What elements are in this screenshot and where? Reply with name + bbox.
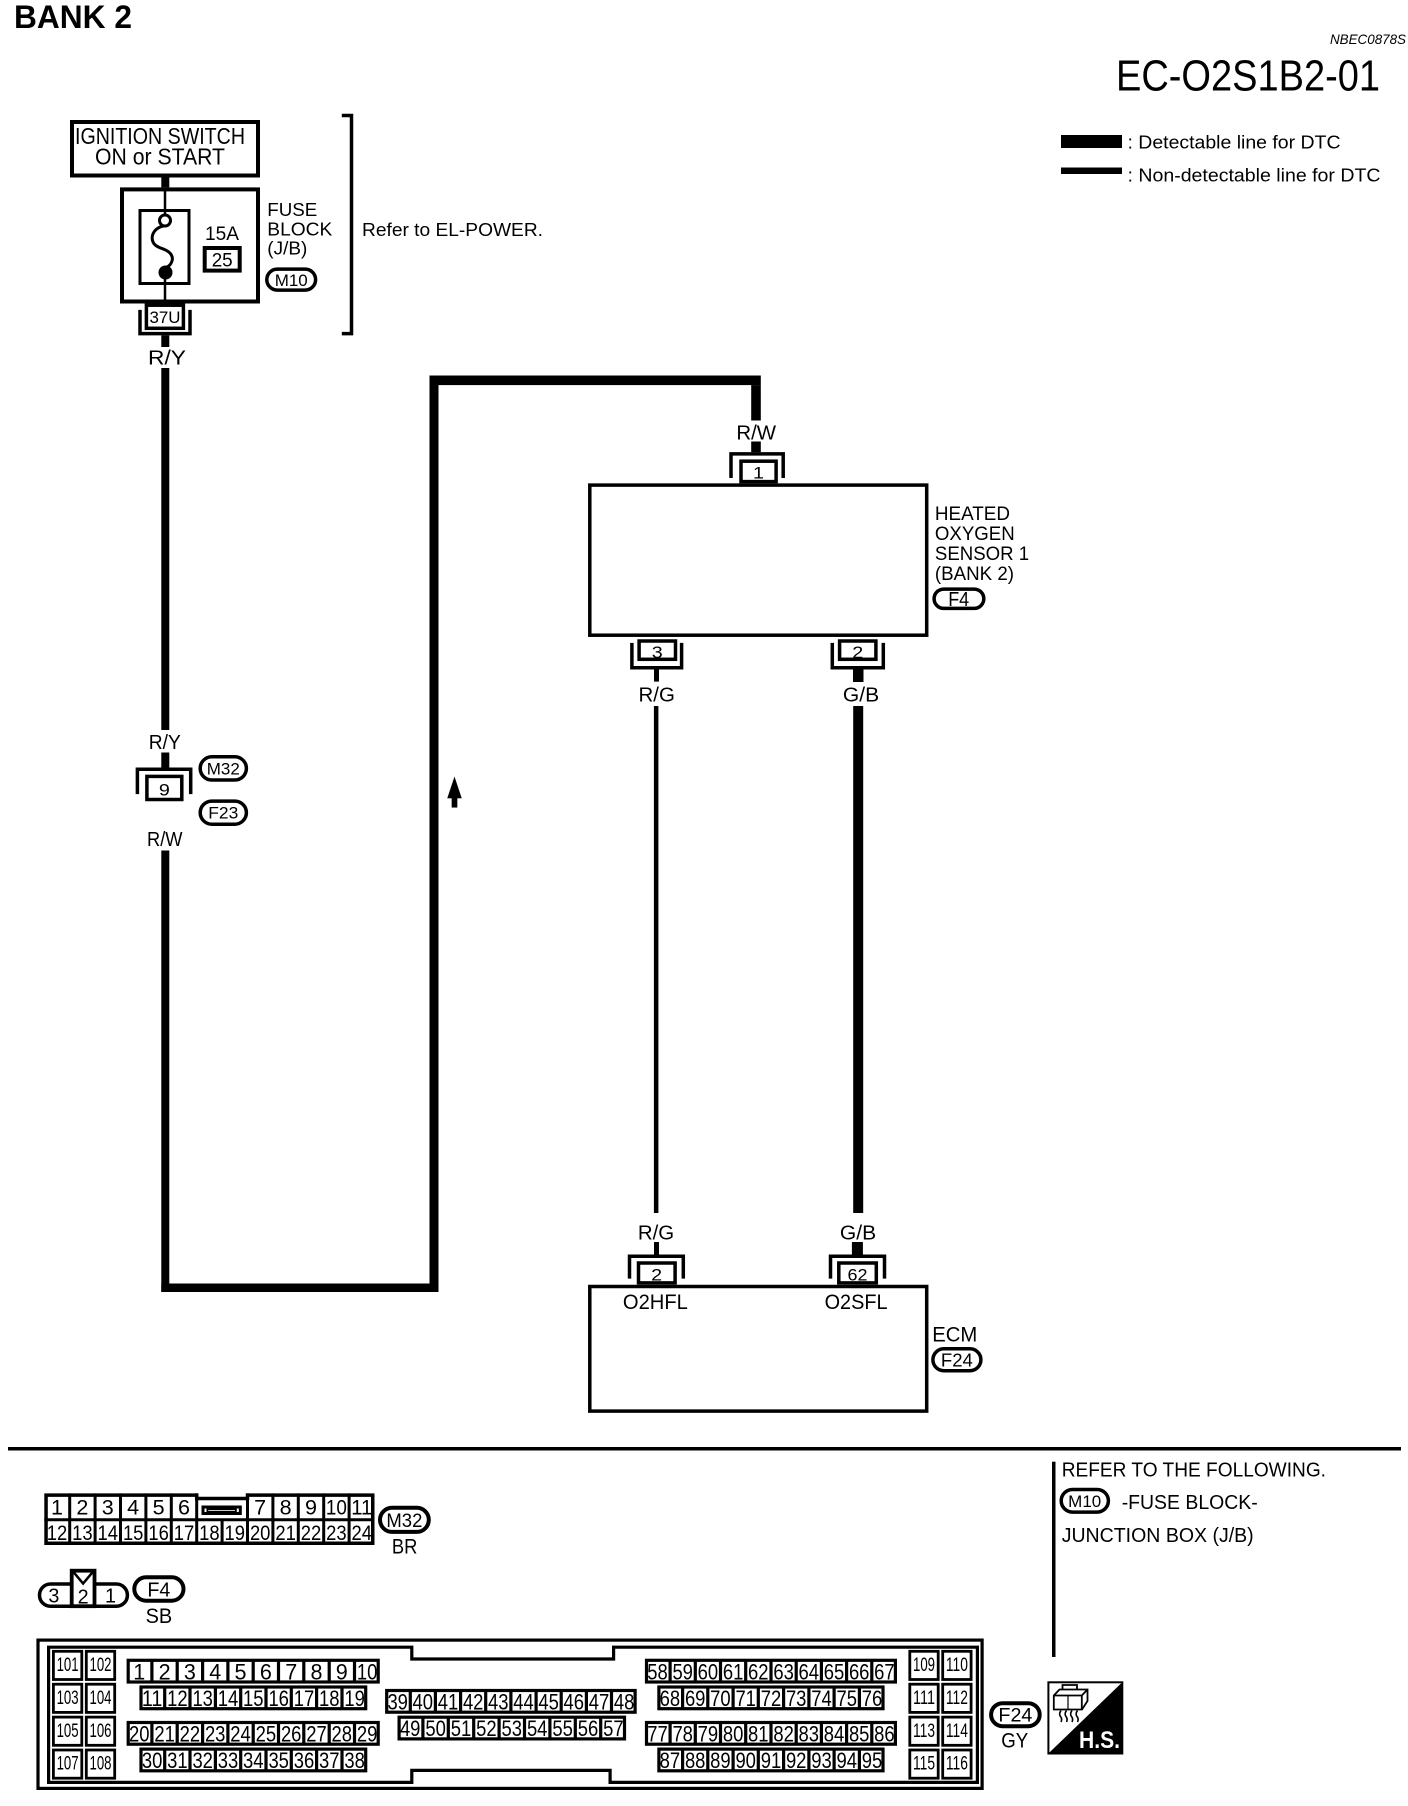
svg-text:F24: F24: [941, 1351, 973, 1371]
svg-text:28: 28: [332, 1722, 353, 1747]
svg-text:40: 40: [413, 1690, 434, 1715]
footer vertical rule: [1052, 1462, 1056, 1657]
svg-text:8: 8: [311, 1659, 323, 1684]
svg-text:16: 16: [148, 1521, 169, 1545]
svg-text:93: 93: [811, 1748, 832, 1773]
connector F24 face inner outline with notches: [49, 1647, 978, 1782]
wire stub above pin 1: [751, 442, 761, 453]
svg-text:64: 64: [799, 1659, 820, 1684]
svg-text:34: 34: [243, 1748, 264, 1773]
svg-text:88: 88: [685, 1748, 706, 1773]
svg-text:92: 92: [786, 1748, 807, 1773]
connector oval M32 footer: [380, 1508, 429, 1532]
svg-text:3: 3: [652, 643, 663, 662]
svg-text:37U: 37U: [150, 309, 181, 327]
svg-text:103: 103: [57, 1688, 79, 1709]
connector M32 row divider: [44, 1518, 374, 1521]
wire R/W bottom horizontal: [161, 1284, 438, 1293]
svg-text:77: 77: [647, 1722, 668, 1747]
svg-text:M32: M32: [386, 1511, 422, 1532]
svg-text:3: 3: [48, 1586, 59, 1608]
connector F24 terminals 20-29: [128, 1722, 378, 1747]
HO2S pin 1 box: [741, 461, 776, 481]
svg-text:8: 8: [280, 1496, 292, 1520]
svg-text:REFER TO THE FOLLOWING.: REFER TO THE FOLLOWING.: [1062, 1460, 1326, 1482]
svg-text:17: 17: [294, 1686, 315, 1711]
svg-text:73: 73: [786, 1686, 807, 1711]
svg-text:4: 4: [127, 1496, 139, 1520]
connector oval F23: [200, 801, 246, 824]
svg-text:R/Y: R/Y: [148, 347, 186, 370]
connector oval F24 footer: [991, 1703, 1040, 1726]
svg-text:F24: F24: [998, 1706, 1032, 1727]
svg-text:25: 25: [212, 251, 233, 272]
svg-text:F4: F4: [948, 589, 969, 611]
ECM pin 2 bracket: [630, 1256, 684, 1278]
ECM pin 2 box: [639, 1263, 676, 1283]
svg-text:-FUSE BLOCK-: -FUSE BLOCK-: [1122, 1492, 1258, 1514]
svg-text:49: 49: [400, 1716, 421, 1741]
svg-text:1: 1: [105, 1586, 116, 1608]
svg-text:90: 90: [735, 1748, 756, 1773]
svg-text:39: 39: [387, 1690, 408, 1715]
connector oval M10 footer: [1061, 1490, 1108, 1513]
connector F24 face outer outline: [38, 1640, 982, 1788]
svg-text:BLOCK: BLOCK: [267, 219, 333, 240]
svg-text:2: 2: [76, 1496, 88, 1520]
separator line: [8, 1447, 1401, 1451]
connector F24 terminals 39-48: [387, 1690, 635, 1715]
svg-text:(BANK 2): (BANK 2): [935, 564, 1014, 585]
connector M32 latch step: [197, 1493, 248, 1498]
svg-text:76: 76: [862, 1686, 883, 1711]
svg-text:70: 70: [710, 1686, 731, 1711]
svg-text:14: 14: [218, 1686, 239, 1711]
wire into fuse: [164, 188, 167, 216]
svg-text:22: 22: [180, 1722, 201, 1747]
svg-text:57: 57: [603, 1716, 624, 1741]
connector M32 face outline: [46, 1495, 373, 1543]
svg-text:17: 17: [174, 1521, 195, 1545]
svg-text:29: 29: [357, 1722, 378, 1747]
svg-text:9: 9: [305, 1496, 317, 1520]
legend non-detectable line sample: [1061, 168, 1122, 175]
svg-text:78: 78: [672, 1722, 693, 1747]
svg-text:M32: M32: [207, 761, 240, 779]
connector M32 cell dividers: [70, 1493, 349, 1545]
svg-text:55: 55: [552, 1716, 573, 1741]
connector F24 terminals 109-116: [910, 1651, 971, 1778]
connector F4 terminals 3-2-1: [48, 1586, 116, 1609]
svg-text:51: 51: [451, 1716, 472, 1741]
connector oval M32 mid: [200, 757, 246, 780]
HO2S pin 3 cup: [632, 643, 682, 668]
wire stub above ECM pin 62: [852, 1242, 863, 1255]
connector 37U cup: [140, 310, 190, 334]
svg-text:31: 31: [167, 1748, 188, 1773]
svg-text:: Detectable line for DTC: : Detectable line for DTC: [1128, 132, 1341, 153]
svg-text:24: 24: [352, 1521, 373, 1545]
svg-text:NBEC0878S: NBEC0878S: [1330, 31, 1407, 47]
svg-text:19: 19: [225, 1521, 246, 1545]
svg-text:82: 82: [773, 1722, 794, 1747]
svg-text:ECM: ECM: [932, 1324, 977, 1347]
connector F4 face outline: [40, 1584, 128, 1606]
svg-text:O2HFL: O2HFL: [623, 1291, 688, 1314]
svg-text:F23: F23: [208, 805, 238, 823]
ECM pin 62 box: [839, 1263, 877, 1283]
svg-text:BR: BR: [392, 1536, 418, 1559]
svg-text:M10: M10: [1068, 1493, 1101, 1511]
svg-text:41: 41: [438, 1690, 459, 1715]
svg-text:13: 13: [72, 1521, 93, 1545]
svg-text:R/G: R/G: [638, 1222, 674, 1245]
svg-text:27: 27: [306, 1722, 327, 1747]
svg-text:43: 43: [488, 1690, 509, 1715]
ignition switch box: [72, 122, 258, 176]
svg-text:32: 32: [192, 1748, 213, 1773]
svg-text:107: 107: [57, 1754, 79, 1775]
svg-text:35: 35: [268, 1748, 289, 1773]
svg-text:9: 9: [159, 781, 170, 800]
svg-text:SENSOR 1: SENSOR 1: [935, 544, 1029, 565]
svg-text:85: 85: [849, 1722, 870, 1747]
svg-text:105: 105: [57, 1721, 79, 1742]
svg-text:GY: GY: [1001, 1730, 1028, 1753]
svg-text:42: 42: [463, 1690, 484, 1715]
svg-text:2: 2: [651, 1266, 662, 1285]
svg-text:20: 20: [250, 1521, 271, 1545]
svg-text:24: 24: [230, 1722, 251, 1747]
svg-text:89: 89: [710, 1748, 731, 1773]
fuse number box: [205, 248, 240, 271]
svg-text:20: 20: [129, 1722, 150, 1747]
svg-text:59: 59: [672, 1659, 693, 1684]
svg-text:6: 6: [260, 1659, 272, 1684]
svg-text:G/B: G/B: [840, 1222, 876, 1245]
connector 9 box: [147, 776, 182, 799]
svg-text:7: 7: [254, 1496, 266, 1520]
connector 9 bracket: [137, 769, 190, 794]
legend detectable line sample: [1061, 135, 1122, 148]
wire G/B vertical: [853, 706, 863, 1213]
svg-text:7: 7: [285, 1659, 297, 1684]
svg-text:53: 53: [502, 1716, 523, 1741]
svg-text:10: 10: [326, 1496, 347, 1520]
svg-text:1: 1: [753, 464, 764, 483]
svg-text:30: 30: [142, 1748, 163, 1773]
svg-text:104: 104: [90, 1688, 112, 1709]
heated oxygen sensor label: [935, 504, 1029, 585]
svg-text:111: 111: [913, 1688, 935, 1709]
svg-text:R/G: R/G: [639, 684, 675, 707]
svg-text:2: 2: [852, 643, 863, 662]
svg-text:87: 87: [660, 1748, 681, 1773]
svg-text:108: 108: [90, 1754, 112, 1775]
fuse 25 symbol: [152, 215, 172, 280]
svg-text:11: 11: [351, 1496, 372, 1520]
svg-text:67: 67: [874, 1659, 895, 1684]
svg-text:BANK 2: BANK 2: [14, 0, 132, 35]
wire R/G vertical: [654, 706, 659, 1213]
svg-text:12: 12: [47, 1521, 68, 1545]
svg-text:95: 95: [862, 1748, 883, 1773]
svg-text:G/B: G/B: [843, 684, 879, 707]
svg-text:11: 11: [142, 1686, 163, 1711]
connector M32 latch slot: [203, 1507, 240, 1514]
svg-text:116: 116: [946, 1754, 968, 1775]
wire out of fuse: [164, 277, 167, 302]
svg-text:1: 1: [51, 1496, 63, 1520]
svg-text:SB: SB: [146, 1605, 173, 1628]
svg-text:25: 25: [256, 1722, 277, 1747]
connector oval F24 ECM: [933, 1349, 981, 1371]
svg-text:21: 21: [154, 1722, 175, 1747]
svg-text:22: 22: [301, 1521, 322, 1545]
connector F24 terminals 30-38: [141, 1748, 366, 1773]
svg-text:4: 4: [209, 1659, 221, 1684]
connector oval F4 footer: [134, 1577, 183, 1600]
wire stub below 37U: [161, 335, 169, 347]
svg-text:112: 112: [946, 1688, 968, 1709]
connector oval F4 sensor: [934, 589, 984, 608]
svg-text:18: 18: [199, 1521, 220, 1545]
svg-text:F4: F4: [147, 1580, 170, 1602]
svg-text:: Non-detectable line for DTC: : Non-detectable line for DTC: [1128, 165, 1381, 186]
wire R/W middle vertical: [430, 376, 439, 1293]
svg-text:113: 113: [913, 1721, 935, 1742]
wire ignition switch to fuse block: [161, 178, 169, 188]
svg-text:R/W: R/W: [147, 828, 183, 851]
H.S. inspection icon: [1048, 1682, 1122, 1754]
svg-text:5: 5: [153, 1496, 165, 1520]
svg-text:9: 9: [336, 1659, 348, 1684]
connector oval M10: [267, 269, 316, 290]
svg-text:110: 110: [946, 1655, 968, 1676]
svg-text:M10: M10: [275, 271, 308, 290]
wire R/W top horizontal: [430, 376, 761, 386]
svg-text:JUNCTION BOX (J/B): JUNCTION BOX (J/B): [1062, 1525, 1254, 1547]
svg-text:46: 46: [564, 1690, 585, 1715]
svg-text:91: 91: [761, 1748, 782, 1773]
svg-text:18: 18: [319, 1686, 340, 1711]
svg-text:71: 71: [735, 1686, 756, 1711]
svg-text:36: 36: [294, 1748, 315, 1773]
svg-text:69: 69: [685, 1686, 706, 1711]
ECM box F24: [590, 1287, 927, 1412]
svg-text:37: 37: [319, 1748, 340, 1773]
svg-text:FUSE: FUSE: [267, 199, 317, 220]
svg-text:38: 38: [344, 1748, 365, 1773]
svg-text:62: 62: [748, 1659, 769, 1684]
wire stub below pin 3: [654, 670, 659, 682]
svg-text:65: 65: [824, 1659, 845, 1684]
svg-text:109: 109: [913, 1655, 935, 1676]
wire stub above ECM pin 2: [654, 1242, 659, 1255]
connector F24 terminals 11-19: [141, 1686, 366, 1711]
svg-text:3: 3: [102, 1496, 114, 1520]
svg-text:66: 66: [849, 1659, 870, 1684]
svg-text:ON or START: ON or START: [95, 144, 225, 170]
svg-text:3: 3: [184, 1659, 196, 1684]
svg-text:OXYGEN: OXYGEN: [935, 524, 1015, 545]
svg-text:2: 2: [78, 1587, 89, 1609]
svg-text:50: 50: [425, 1716, 446, 1741]
svg-text:23: 23: [326, 1521, 347, 1545]
svg-text:74: 74: [811, 1686, 832, 1711]
svg-text:84: 84: [824, 1722, 845, 1747]
connector F24 terminals 1-10: [128, 1659, 378, 1684]
bracket refer to EL-POWER: [342, 116, 352, 334]
svg-text:15: 15: [123, 1521, 144, 1545]
connector F24 terminals 87-95: [659, 1748, 883, 1773]
svg-text:47: 47: [589, 1690, 610, 1715]
svg-text:HEATED: HEATED: [935, 504, 1010, 525]
svg-text:102: 102: [90, 1655, 112, 1676]
ECM pin 62 bracket: [831, 1256, 885, 1278]
connector F24 terminals 101-108: [53, 1651, 114, 1778]
svg-text:62: 62: [848, 1266, 868, 1285]
connector F24 terminals 68-76: [659, 1686, 883, 1711]
wire R/W right drop: [751, 385, 761, 420]
svg-text:6: 6: [178, 1496, 190, 1520]
fuse cell box: [140, 211, 189, 284]
svg-text:45: 45: [538, 1690, 559, 1715]
svg-text:56: 56: [578, 1716, 599, 1741]
svg-text:68: 68: [660, 1686, 681, 1711]
svg-text:23: 23: [205, 1722, 226, 1747]
svg-text:O2SFL: O2SFL: [825, 1291, 888, 1314]
svg-text:15: 15: [243, 1686, 264, 1711]
HO2S pin 2 box: [840, 641, 876, 659]
wire stub above connector 9: [161, 753, 169, 768]
svg-text:EC-O2S1B2-01: EC-O2S1B2-01: [1116, 53, 1380, 101]
svg-text:26: 26: [281, 1722, 302, 1747]
svg-text:10: 10: [357, 1659, 378, 1684]
svg-text:16: 16: [268, 1686, 289, 1711]
svg-text:5: 5: [235, 1659, 247, 1684]
svg-text:15A: 15A: [205, 224, 239, 245]
svg-text:(J/B): (J/B): [267, 238, 307, 259]
HO2S pin 1 cup: [731, 454, 783, 478]
connector F4 key cell: [72, 1571, 95, 1607]
svg-text:94: 94: [837, 1748, 858, 1773]
svg-text:75: 75: [837, 1686, 858, 1711]
svg-text:86: 86: [874, 1722, 895, 1747]
svg-text:19: 19: [344, 1686, 365, 1711]
connector F24 terminals 49-57: [399, 1716, 624, 1741]
svg-text:R/Y: R/Y: [149, 731, 181, 754]
wire stub below pin 2: [853, 670, 864, 683]
svg-text:21: 21: [275, 1521, 296, 1545]
svg-text:14: 14: [98, 1521, 119, 1545]
svg-text:2: 2: [159, 1659, 171, 1684]
connector 37U box: [146, 305, 183, 328]
svg-text:114: 114: [946, 1721, 968, 1742]
fuse block outline M10: [122, 189, 258, 301]
arrow up on R/W wire: [447, 777, 461, 808]
svg-text:1: 1: [133, 1659, 145, 1684]
connector F24 terminals 77-86: [647, 1722, 896, 1747]
svg-text:81: 81: [748, 1722, 769, 1747]
wire R/Y vertical: [161, 368, 169, 730]
svg-text:52: 52: [476, 1716, 497, 1741]
connector M32 terminals 12-24: [47, 1521, 372, 1545]
connector M32 terminals 1-11: [51, 1496, 372, 1520]
ignition switch label: [75, 123, 245, 170]
svg-text:R/W: R/W: [736, 422, 776, 445]
svg-text:Refer to EL-POWER.: Refer to EL-POWER.: [362, 219, 543, 240]
svg-text:48: 48: [614, 1690, 635, 1715]
svg-text:115: 115: [913, 1754, 935, 1775]
svg-text:61: 61: [723, 1659, 744, 1684]
wire R/W left vertical: [161, 851, 169, 1293]
svg-text:58: 58: [647, 1659, 668, 1684]
fuse block label: [267, 199, 333, 259]
svg-text:33: 33: [218, 1748, 239, 1773]
svg-text:H.S.: H.S.: [1079, 1727, 1120, 1754]
svg-text:83: 83: [799, 1722, 820, 1747]
svg-text:13: 13: [192, 1686, 213, 1711]
svg-text:101: 101: [57, 1655, 79, 1676]
svg-text:80: 80: [723, 1722, 744, 1747]
svg-text:12: 12: [167, 1686, 188, 1711]
heated oxygen sensor box F4: [590, 485, 927, 635]
svg-text:44: 44: [513, 1690, 534, 1715]
HO2S pin 2 cup: [832, 643, 883, 668]
svg-text:79: 79: [698, 1722, 719, 1747]
svg-text:54: 54: [527, 1716, 548, 1741]
svg-text:106: 106: [90, 1721, 112, 1742]
HO2S pin 3 box: [639, 641, 675, 659]
connector F4 key notch: [73, 1571, 94, 1583]
svg-text:72: 72: [761, 1686, 782, 1711]
svg-text:60: 60: [698, 1659, 719, 1684]
connector F24 terminals 58-67: [647, 1659, 896, 1684]
svg-text:63: 63: [773, 1659, 794, 1684]
